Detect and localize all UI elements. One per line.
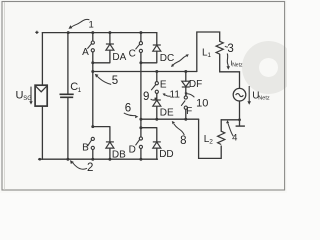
switch D	[136, 137, 143, 149]
svg-text:DF: DF	[189, 79, 202, 90]
svg-text:A: A	[82, 47, 89, 58]
svg-text:4: 4	[232, 133, 237, 144]
switch F	[181, 96, 187, 109]
wire top rail (1)	[42, 32, 156, 34]
wire L2 top	[220, 120, 222, 131]
wire C-DC join	[141, 51, 157, 63]
svg-text:DA: DA	[112, 52, 126, 63]
wire earth stub	[239, 120, 241, 126]
diode DF	[182, 81, 190, 87]
wire grid bottom	[221, 101, 239, 120]
wire DA top	[109, 33, 111, 44]
leader 9	[151, 97, 158, 100]
svg-text:U: U	[16, 90, 24, 102]
inductor L2	[218, 131, 225, 144]
switch C	[136, 42, 143, 53]
svg-text:9: 9	[143, 91, 149, 103]
svg-text:2: 2	[209, 139, 213, 146]
svg-text:F: F	[186, 106, 192, 117]
svg-text:D: D	[129, 144, 136, 155]
svg-text:6: 6	[125, 102, 131, 114]
earth symbol	[236, 125, 245, 127]
wire left branch upper	[41, 33, 43, 86]
wire rail 5	[93, 71, 197, 73]
wire bottom rail (2)	[39, 158, 158, 160]
switch A	[87, 41, 94, 52]
leader 2	[70, 160, 87, 169]
svg-text:DE: DE	[160, 108, 174, 119]
svg-text:SG: SG	[23, 96, 32, 102]
leader 7 double arrow	[171, 54, 189, 67]
wire B-DB join	[93, 127, 110, 142]
svg-text:Netz: Netz	[258, 96, 270, 102]
AC source UNetz	[233, 88, 246, 101]
switch B	[87, 137, 94, 149]
diode DD	[153, 142, 161, 148]
wire C1 branch upper	[67, 33, 69, 94]
svg-text:2: 2	[87, 162, 93, 174]
wire D-DD join	[141, 128, 157, 142]
wire A-DA join	[93, 50, 110, 63]
capacitor C1	[60, 94, 74, 97]
leader 1	[69, 19, 90, 29]
diode DE	[153, 100, 161, 106]
diode DC	[153, 45, 161, 51]
leader 10	[184, 92, 194, 97]
arrow UNetz	[247, 86, 251, 105]
svg-text:10: 10	[196, 97, 208, 109]
leader 3	[225, 46, 228, 47]
svg-text:11: 11	[170, 89, 181, 100]
svg-text:Netz: Netz	[232, 63, 243, 69]
svg-text:1: 1	[89, 19, 94, 30]
leader 11	[163, 93, 171, 96]
svg-text:E: E	[160, 80, 167, 91]
wire F branch	[185, 72, 187, 120]
wire L2 bottom loop	[199, 119, 222, 158]
wire top right loop	[197, 32, 220, 72]
svg-text:1: 1	[207, 52, 211, 59]
arrow USG	[29, 87, 32, 105]
node plus terminal	[35, 31, 38, 34]
watermark ring	[242, 41, 295, 94]
leader 4	[226, 120, 233, 136]
switch E	[151, 82, 158, 94]
wire DC top	[156, 33, 158, 45]
diode DB	[106, 142, 114, 148]
wire leg1 vertical	[92, 33, 94, 160]
leader 5	[95, 74, 111, 85]
leader 8	[172, 121, 185, 135]
svg-text:5: 5	[112, 75, 118, 87]
frame inner faint line	[4, 2, 6, 190]
wire C1 branch lower	[67, 97, 69, 159]
wire leg2 vertical	[140, 33, 142, 160]
svg-text:DD: DD	[159, 149, 173, 160]
wire L1 to grid	[220, 54, 240, 88]
leader 6	[124, 113, 139, 118]
wire DB bottom	[109, 148, 111, 159]
wire rail 8	[141, 118, 199, 120]
diode DA	[106, 44, 114, 50]
inductor L1	[216, 41, 223, 54]
svg-text:B: B	[82, 143, 89, 154]
wire DD bottom	[156, 148, 158, 159]
svg-text:DB: DB	[112, 150, 126, 161]
svg-text:8: 8	[180, 135, 186, 147]
arrow INetz	[227, 54, 231, 70]
wire left branch lower	[41, 106, 43, 159]
border frame	[2, 2, 285, 191]
solar generator source USG box	[35, 85, 47, 106]
svg-text:1: 1	[78, 87, 82, 94]
svg-text:3: 3	[227, 43, 233, 55]
wire E branch	[156, 72, 158, 120]
svg-text:DC: DC	[160, 53, 174, 64]
svg-text:C: C	[129, 48, 136, 59]
